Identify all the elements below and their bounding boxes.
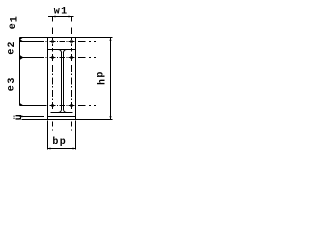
svg-text:3: 3 bbox=[7, 78, 18, 84]
svg-text:w1: w1 bbox=[54, 7, 69, 18]
svg-text:ü: ü bbox=[13, 114, 25, 120]
svg-text:e: e bbox=[6, 49, 17, 55]
svg-text:e: e bbox=[7, 85, 18, 91]
svg-text:bp: bp bbox=[52, 136, 67, 148]
svg-text:e: e bbox=[8, 23, 19, 29]
svg-text:p: p bbox=[95, 72, 106, 78]
svg-text:h: h bbox=[96, 79, 108, 85]
svg-text:2: 2 bbox=[7, 41, 18, 47]
svg-text:1: 1 bbox=[10, 16, 21, 22]
